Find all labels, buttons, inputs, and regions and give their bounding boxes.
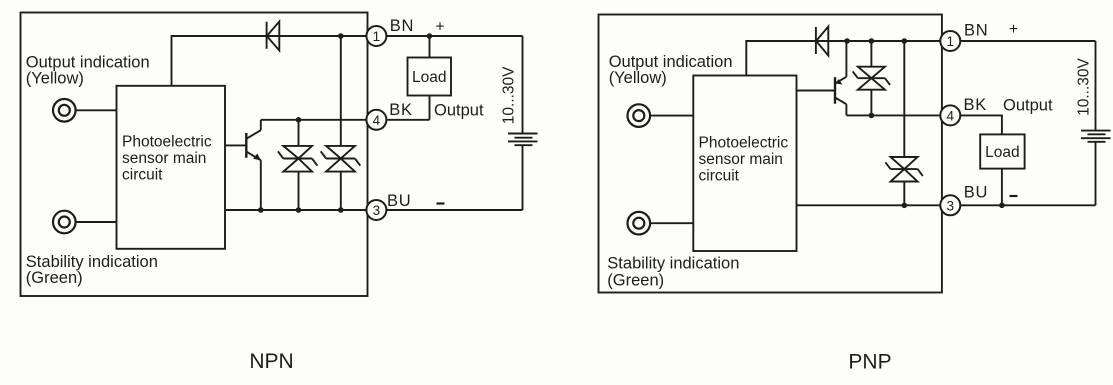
svg-text:circuit: circuit	[122, 167, 163, 184]
svg-text:sensor main: sensor main	[122, 150, 206, 167]
junction dots NPN	[258, 33, 432, 213]
svg-text:Load: Load	[985, 144, 1019, 161]
wire: NPN top rail from corner to terminal 1	[172, 36, 367, 86]
NPN outer enclosure box	[21, 13, 368, 297]
wire: yellow lamp to box (PNP)	[650, 115, 693, 117]
terminal circle 1 (NPN)	[366, 26, 386, 46]
battery B1 (NPN)	[508, 36, 538, 210]
svg-text:1: 1	[947, 34, 955, 49]
svg-text:Photoelectric: Photoelectric	[699, 134, 789, 151]
svg-text:10...30V: 10...30V	[501, 66, 518, 124]
wire: PNP top rail	[746, 41, 941, 76]
load box (NPN)	[408, 58, 452, 96]
load box (PNP)	[980, 134, 1024, 168]
indicator lamp: output indication yellow (PNP)	[628, 104, 651, 127]
wire: green lamp to box (PNP)	[650, 222, 693, 224]
svg-text:10...30V: 10...30V	[1075, 57, 1092, 115]
PNP outer enclosure box	[599, 15, 942, 293]
wire: PNP bottom BU rail	[797, 204, 941, 206]
wire: NPN BK rail (collector to terminal 4)	[261, 119, 367, 121]
text labels PNP	[607, 21, 1092, 374]
svg-text:Photoelectric: Photoelectric	[122, 134, 212, 151]
diode D2 (anode right, pointing left)	[816, 27, 828, 56]
svg-text:circuit: circuit	[699, 167, 740, 184]
wire: PNP BK rail (collector to terminal 4)	[846, 114, 940, 116]
wire: load bottom to BU rail (PNP)	[1001, 169, 1003, 206]
diode D1 (anode right, pointing left)	[267, 22, 280, 51]
wire: terminal 4 to load leg	[386, 119, 429, 121]
wire: terminal 3 to battery minus rail	[386, 209, 522, 211]
zener TVS Z1 (BK to BU)	[278, 120, 318, 210]
indicator lamp: output indication yellow (NPN)	[53, 99, 76, 122]
svg-text:PNP: PNP	[848, 351, 891, 374]
svg-text:Output: Output	[434, 101, 484, 119]
svg-text:BU: BU	[964, 183, 989, 201]
svg-text:3: 3	[373, 203, 381, 218]
battery B2 (PNP)	[1081, 41, 1111, 205]
svg-text:Load: Load	[412, 69, 446, 86]
minus sign PNP	[1010, 195, 1018, 197]
svg-text:BN: BN	[964, 21, 989, 39]
terminal circle 1 (PNP)	[940, 31, 960, 51]
Photoelectric sensor main circuit box (PNP)	[693, 76, 796, 252]
zener TVS Z4 (BN to BU)	[885, 41, 922, 205]
text labels NPN	[26, 17, 518, 373]
svg-text:BK: BK	[964, 96, 988, 114]
indicator lamp: stability indication green (PNP)	[628, 212, 651, 235]
wire: NPN bottom BU rail	[225, 209, 367, 211]
label: Photoelectric sensor main circuit	[122, 134, 212, 184]
wire: yellow lamp to main circuit box	[76, 109, 117, 111]
svg-text:(Green): (Green)	[607, 271, 664, 289]
wire: terminal 1 to battery plus (PNP)	[960, 40, 1095, 42]
zener TVS Z2 (BN to BU)	[321, 36, 361, 210]
zener TVS Z3 (BN to BK)	[853, 41, 890, 115]
svg-text:4: 4	[947, 108, 955, 123]
minus sign NPN	[437, 202, 445, 204]
svg-text:(Yellow): (Yellow)	[26, 69, 84, 87]
wire: terminal 1 to battery plus rail	[386, 35, 522, 37]
indicator lamp: stability indication green (NPN)	[53, 211, 76, 234]
svg-text:+: +	[435, 19, 444, 36]
svg-text:(Yellow): (Yellow)	[609, 69, 667, 87]
terminal circle 4 (PNP)	[940, 105, 960, 125]
svg-text:BN: BN	[390, 17, 415, 35]
svg-text:sensor main: sensor main	[699, 151, 783, 168]
svg-text:+: +	[1009, 21, 1018, 38]
svg-text:4: 4	[373, 113, 381, 128]
svg-text:NPN: NPN	[249, 350, 293, 373]
terminal circle 3 (PNP)	[940, 195, 960, 215]
label: Photoelectric sensor main circuit PNP	[699, 134, 789, 184]
svg-text:Output: Output	[1003, 97, 1053, 115]
svg-text:BK: BK	[389, 101, 413, 119]
transistor Q1 NPN	[225, 120, 261, 210]
Photoelectric sensor main circuit box (NPN)	[117, 86, 226, 249]
svg-text:Stability indication: Stability indication	[607, 255, 739, 273]
terminal circle 4 (NPN)	[366, 110, 386, 130]
junction dots PNP	[844, 38, 1004, 208]
svg-text:BU: BU	[387, 192, 412, 210]
terminal circle 3 (NPN)	[366, 200, 386, 220]
svg-text:(Green): (Green)	[26, 269, 83, 287]
wire: terminal 3 to battery minus (PNP)	[960, 204, 1095, 206]
transistor Q2 PNP	[797, 41, 847, 115]
wire: load tap down	[429, 36, 431, 58]
svg-text:1: 1	[373, 29, 381, 44]
wire: green lamp to main circuit box	[76, 221, 117, 223]
svg-text:3: 3	[947, 198, 955, 213]
wire: load bottom to BK	[429, 96, 431, 120]
wire: terminal 4 to load (PNP)	[960, 115, 1002, 134]
